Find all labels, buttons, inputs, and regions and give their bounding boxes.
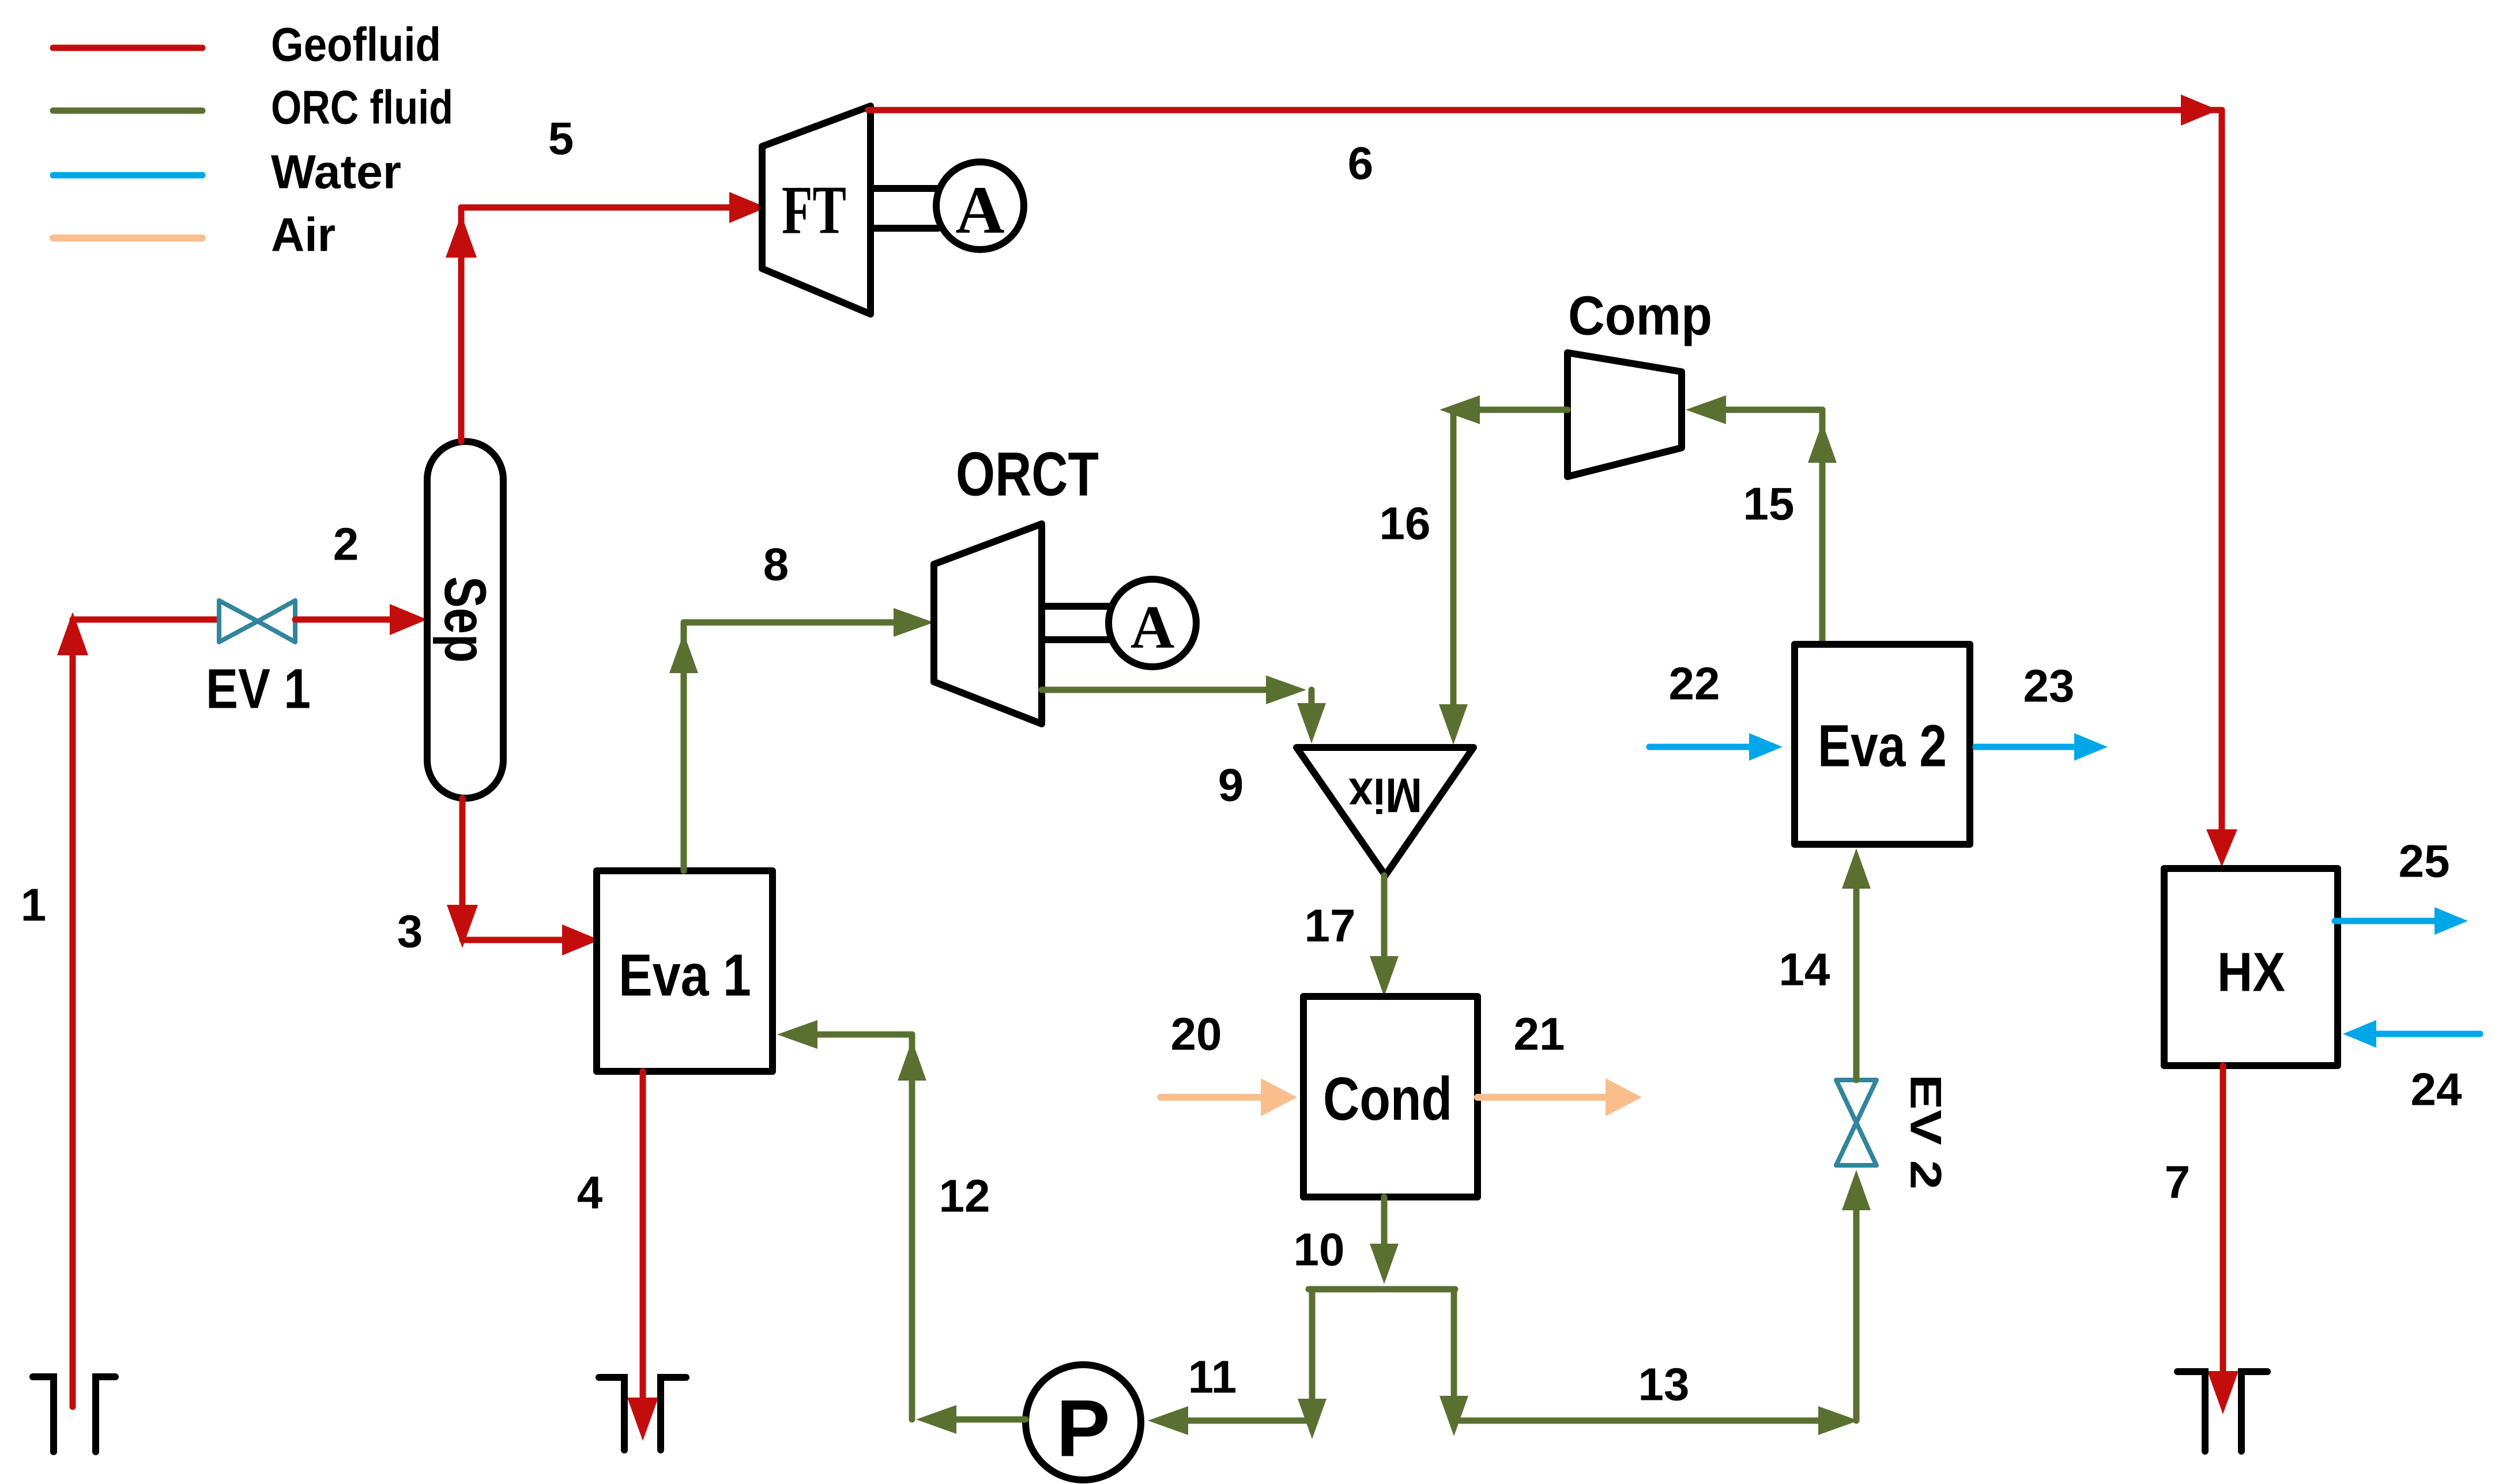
svg-text:Cond: Cond [1323, 1065, 1452, 1133]
svg-text:P: P [1056, 1383, 1110, 1474]
wire stream 6 top horizontal [868, 107, 2222, 114]
arrowhead stream 7 down [2207, 1371, 2239, 1414]
arrowhead stream 24 left [2343, 1020, 2376, 1048]
svg-text:16: 16 [1380, 498, 1431, 549]
wire stream 12 from pump [954, 1417, 1026, 1423]
separator Sep vessel [427, 441, 503, 798]
svg-text:FT: FT [782, 172, 846, 248]
arrowhead stream 22 right [1749, 733, 1783, 761]
arrowhead stream 3 down [447, 905, 478, 948]
wire splitter left drop [1309, 1289, 1316, 1398]
arrowhead stream 6 down into HX [2206, 829, 2237, 867]
svg-text:A: A [955, 172, 1004, 248]
valve EV 2 [1836, 1080, 1876, 1165]
flash turbine FT [762, 106, 870, 314]
svg-text:17: 17 [1305, 900, 1356, 951]
ORC turbine ORCT [934, 524, 1042, 724]
svg-text:7: 7 [2165, 1157, 2191, 1208]
arrowhead splitter right down [1439, 1396, 1468, 1436]
arrowhead stream 5 right [729, 192, 767, 223]
svg-text:11: 11 [1188, 1351, 1237, 1403]
arrowhead stream 8 right [894, 608, 934, 637]
arrowhead stream 9 right [1266, 675, 1306, 704]
svg-text:HX: HX [2217, 942, 2285, 1003]
svg-text:Water: Water [271, 145, 401, 199]
wire stream 4 from Eva 1 bottom [640, 1071, 646, 1400]
injection well below Eva 1 [599, 1377, 686, 1450]
arrowhead stream 10 down [1370, 1244, 1399, 1284]
ORCT shaft lines [1042, 603, 1109, 610]
legend Air line [53, 235, 202, 241]
arrowhead stream 3 right [562, 924, 600, 956]
arrowhead stream 12 up [898, 1040, 926, 1081]
svg-text:ORC fluid: ORC fluid [271, 81, 453, 134]
arrowhead stream 1 up [57, 612, 88, 655]
svg-text:EV 2: EV 2 [1901, 1074, 1950, 1190]
svg-text:5: 5 [548, 113, 574, 164]
svg-text:Mix: Mix [1348, 768, 1422, 822]
wire stream 15 vertical from Eva 2 top [1819, 410, 1826, 644]
svg-text:Sep: Sep [432, 576, 498, 663]
wire stream 14 from EV 2 to Eva 2 [1853, 889, 1860, 1080]
wire stream 1-2 horizontal into valve [73, 617, 219, 623]
arrowhead stream 25 right [2435, 907, 2468, 935]
arrowhead stream 12 left into Eva 1 [777, 1020, 817, 1049]
arrowhead stream 15 left [1686, 395, 1726, 424]
svg-text:21: 21 [1514, 1009, 1565, 1060]
arrowhead stream 23 right [2074, 733, 2108, 761]
wire stream 11 to pump [1185, 1418, 1312, 1424]
svg-text:23: 23 [2023, 660, 2075, 712]
wire stream 22 water into Eva 2 [1649, 744, 1753, 750]
svg-text:Eva 2: Eva 2 [1818, 713, 1947, 779]
legend Geofluid line [53, 45, 202, 51]
pump P [1026, 1365, 1141, 1480]
wire stream 12 horizontal into Eva 1 [815, 1032, 912, 1038]
arrowhead stream 15 up [1808, 422, 1837, 463]
wire splitter header below Cond [1309, 1286, 1455, 1293]
wire stream 15 horizontal into Comp [1724, 407, 1822, 413]
condenser Cond [1303, 996, 1478, 1197]
wire stream 16 from Comp [1476, 407, 1567, 413]
wire stream 20 air into Cond [1160, 1094, 1263, 1101]
arrowhead stream 13 right [1818, 1406, 1859, 1435]
svg-text:15: 15 [1743, 478, 1795, 530]
svg-text:9: 9 [1218, 760, 1244, 811]
svg-text:8: 8 [763, 539, 789, 590]
legend ORC fluid line [53, 108, 202, 114]
mixer Mix [1297, 747, 1474, 875]
arrowhead stream 5 up [446, 214, 477, 258]
wire stream 7 from HX bottom [2220, 1066, 2226, 1375]
arrowhead stream 14 up [1842, 848, 1871, 889]
svg-text:20: 20 [1171, 1009, 1222, 1060]
wire stream 12 vertical up [909, 1034, 915, 1419]
wire stream 3 vertical from Sep bottom [459, 798, 466, 908]
svg-text:13: 13 [1638, 1359, 1690, 1410]
wire splitter right drop [1451, 1289, 1457, 1395]
injection well below HX [2177, 1372, 2267, 1451]
wire stream 13 riser to EV 2 [1853, 1210, 1860, 1421]
wire stream 9 from ORCT outlet [1042, 687, 1271, 693]
svg-text:Comp: Comp [1568, 285, 1712, 347]
arrowhead stream 12 left [916, 1405, 956, 1434]
arrowhead stream 4 down [627, 1398, 658, 1441]
arrowhead stream 20 right [1261, 1078, 1297, 1116]
wire stream 17 from Mix apex to Cond [1381, 875, 1388, 958]
svg-text:12: 12 [939, 1170, 990, 1222]
arrowhead stream 13 riser up [1842, 1170, 1871, 1210]
arrowhead stream 17 down [1370, 956, 1399, 996]
generator A of ORCT [1109, 579, 1196, 667]
evaporator Eva 2 [1795, 644, 1970, 844]
production well bottom left [33, 1377, 115, 1452]
svg-text:2: 2 [333, 519, 359, 570]
svg-text:25: 25 [2399, 836, 2450, 887]
heat exchanger HX [2164, 869, 2338, 1066]
svg-text:24: 24 [2411, 1064, 2462, 1115]
wire stream 6 vertical down right side [2219, 110, 2225, 830]
valve EV 1 [219, 601, 295, 642]
wire stream 1 vertical from production well [70, 620, 76, 1407]
arrowhead stream 16 left [1439, 395, 1480, 424]
svg-text:6: 6 [1348, 138, 1374, 189]
wire stream 2 into separator [295, 617, 392, 623]
svg-text:Eva 1: Eva 1 [619, 942, 751, 1009]
wire stream 23 water out of Eva 2 [1976, 744, 2078, 750]
arrowhead stream 16 down [1439, 704, 1468, 745]
arrowhead stream 2 right [390, 604, 427, 635]
wire stream 16 vertical down into Mix [1450, 410, 1457, 706]
arrowhead stream 21 right [1606, 1078, 1642, 1116]
arrowhead stream 11 left [1148, 1406, 1188, 1435]
arrowhead stream 9 down [1297, 703, 1326, 743]
FT shaft lines [870, 185, 938, 192]
arrowhead stream 8 up [669, 633, 698, 673]
arrowhead splitter left down [1298, 1399, 1327, 1439]
svg-text:Air: Air [271, 208, 336, 262]
wire stream 5 horizontal to FT [461, 205, 732, 211]
wire stream 3 horizontal into Eva 1 [462, 937, 562, 943]
wire stream 8 horizontal to ORCT [684, 620, 898, 626]
legend Water line [53, 172, 202, 179]
svg-text:22: 22 [1669, 658, 1720, 709]
arrowhead stream 6 right at corner [2181, 95, 2218, 126]
svg-text:Geofluid: Geofluid [271, 18, 441, 71]
wire stream 10 from Cond bottom [1381, 1197, 1388, 1245]
svg-text:EV 1: EV 1 [206, 658, 311, 720]
wire stream 21 air out of Cond [1478, 1094, 1606, 1101]
svg-text:4: 4 [577, 1167, 603, 1218]
compressor Comp [1567, 353, 1682, 477]
generator A of FT [936, 162, 1024, 250]
wire stream 5 vertical from Sep top [458, 207, 465, 441]
wire stream 24 water into HX [2373, 1031, 2480, 1037]
svg-text:3: 3 [397, 906, 423, 957]
svg-text:14: 14 [1779, 944, 1830, 995]
svg-text:10: 10 [1294, 1224, 1345, 1275]
evaporator Eva 1 [597, 871, 772, 1071]
svg-text:1: 1 [21, 879, 47, 931]
wire stream 9 corner down into Mix [1309, 690, 1315, 706]
wire stream 8 vertical from Eva 1 top [681, 622, 687, 871]
svg-text:ORCT: ORCT [956, 439, 1099, 509]
svg-text:A: A [1130, 594, 1175, 661]
wire stream 13 bottom horizontal [1454, 1418, 1822, 1424]
wire stream 25 water out of HX [2335, 918, 2438, 924]
